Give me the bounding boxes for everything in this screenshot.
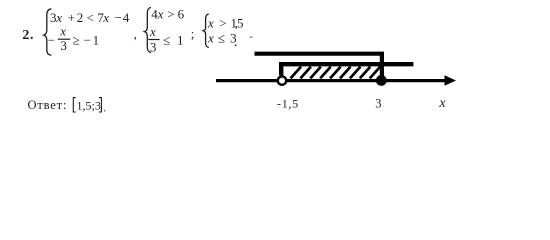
- svg-text:;: ;: [191, 26, 195, 41]
- svg-text:≤1: ≤1: [163, 32, 183, 47]
- axis line: [216, 79, 446, 82]
- svg-text:3: 3: [60, 38, 67, 53]
- fraction bar: [58, 38, 71, 40]
- svg-text:1,5;3: 1,5;3: [77, 99, 101, 113]
- svg-text:3: 3: [375, 97, 381, 111]
- fraction bar: [148, 39, 159, 41]
- svg-text:−≥−1: −≥−1: [48, 32, 99, 47]
- brace system 1: [44, 9, 52, 55]
- number line: upper bracket ray x<=3: [255, 52, 382, 78]
- svg-text:x: x: [438, 96, 446, 111]
- filled circle at 3: [376, 75, 387, 86]
- svg-text:-1,5: -1,5: [277, 97, 299, 111]
- axis arrowhead: [445, 75, 457, 86]
- brace system 2: [145, 8, 152, 53]
- svg-text:4x>6: 4x>6: [151, 7, 184, 22]
- brace system 3: [203, 14, 209, 47]
- svg-text:Ответ:: Ответ:: [28, 98, 68, 112]
- svg-text:,: ,: [134, 27, 137, 42]
- svg-text:x≤3: x≤3: [207, 30, 237, 45]
- left square bracket: [73, 98, 76, 112]
- svg-text:x: x: [149, 24, 156, 39]
- svg-text:2.: 2.: [22, 28, 34, 43]
- open circle at -1,5: [278, 76, 286, 84]
- hatched interval: [291, 67, 381, 79]
- period after system 3: [235, 44, 237, 46]
- faint dash artifact: [249, 36, 252, 38]
- number line: lower bracket ray x>1.5: [281, 62, 413, 76]
- svg-text:.: .: [103, 101, 106, 115]
- svg-text:x>1,5: x>1,5: [207, 15, 244, 30]
- svg-text:3: 3: [150, 40, 157, 55]
- svg-text:x: x: [59, 24, 66, 39]
- right square bracket: [99, 98, 102, 112]
